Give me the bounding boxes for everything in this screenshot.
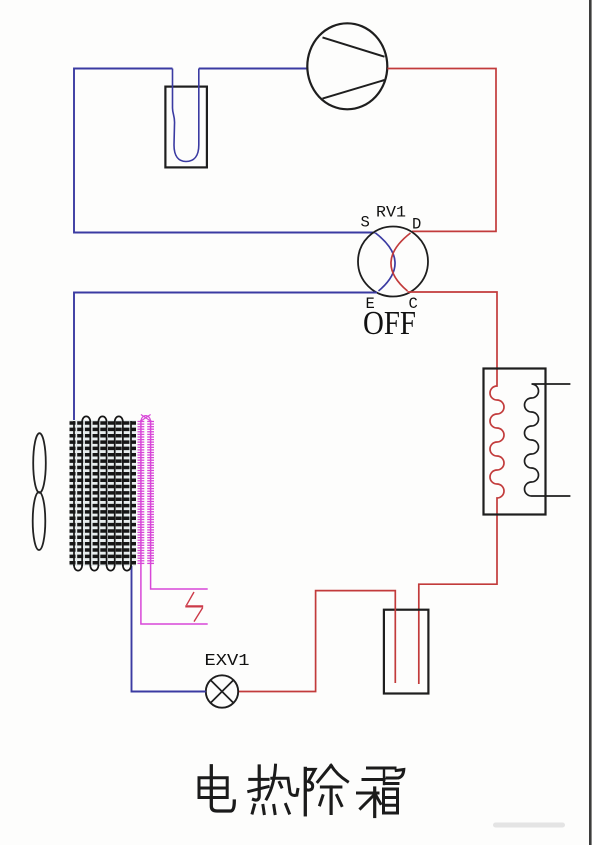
heater hairpin top bend (141, 415, 151, 423)
heater element right leg / upper lead (151, 420, 208, 589)
wire: receiver left tube to EXV1 (red) (239, 591, 396, 692)
svg-text:RV1: RV1 (376, 204, 406, 222)
expansion valve EXV1 body (206, 675, 238, 707)
EXV1 cross stroke 2 (211, 680, 234, 703)
wire: evaporator outlet to EXV1 (blue) (132, 566, 206, 692)
svg-text:EXV1: EXV1 (205, 652, 250, 671)
evaporator bottom return bends (74, 565, 131, 571)
evaporator tubes (74, 421, 131, 566)
heater power lightning symbol (185, 592, 203, 622)
receiver-drier vessel (384, 610, 429, 694)
evaporator top return bends (82, 416, 123, 422)
compressor symbol line lower (323, 80, 385, 99)
accumulator U-tube (173, 69, 199, 162)
fan blade lower (33, 492, 46, 550)
title char 热 (249, 765, 298, 813)
evaporator block shading (70, 420, 137, 566)
title char 电 (199, 766, 234, 811)
compressor body (307, 23, 387, 109)
HX water coil with inlet/outlet stubs (525, 384, 571, 496)
svg-text:D: D (412, 216, 421, 234)
4-way valve RV1 body (358, 227, 428, 297)
svg-text:S: S (361, 214, 370, 232)
wire: RV1 E port to evaporator (blue) (74, 293, 377, 422)
plate heat exchanger shell (484, 369, 546, 515)
evaporator fins (70, 423, 137, 563)
title char 除 (305, 765, 347, 814)
wire: suction line top-left (blue) (74, 69, 376, 233)
title char 霜 (358, 768, 404, 817)
wire: discharge line compressor to RV1 D port (red) (388, 69, 497, 232)
photo edge dark line (right) (589, 0, 592, 845)
heater fin ticks (138, 422, 155, 564)
wire: suction line accumulator to compressor (blue) (199, 68, 308, 70)
RV1 internal passage S-E (blue) (376, 233, 396, 291)
compressor symbol line upper (323, 37, 385, 56)
faint smudge bottom right (493, 823, 565, 828)
heater element left leg / lower lead (141, 420, 208, 624)
svg-text:OFF: OFF (363, 305, 416, 342)
wire: RV1 C port to plate HX refrigerant coil to receiver (red) (408, 292, 505, 684)
accumulator vessel (165, 87, 207, 168)
EXV1 cross stroke 1 (211, 680, 234, 703)
fan blade upper (33, 433, 46, 493)
RV1 internal passage D-C (red) (391, 233, 411, 291)
